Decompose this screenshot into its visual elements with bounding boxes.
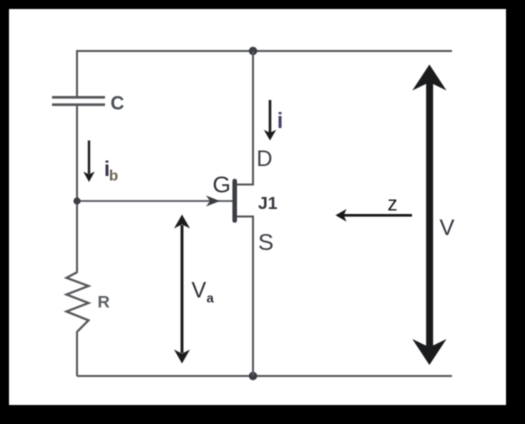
- svg-text:V: V: [440, 215, 455, 240]
- svg-text:V: V: [192, 278, 207, 303]
- gate arrowhead: [206, 196, 220, 207]
- wire left lower (resistor to bottom rail): [76, 331, 78, 376]
- wire left upper (top rail to capacitor): [76, 50, 78, 97]
- current arrow i_b: [83, 141, 94, 183]
- svg-text:z: z: [388, 194, 398, 216]
- voltage arrow Va (double headed): [174, 215, 190, 364]
- svg-text:D: D: [257, 146, 273, 171]
- current arrow i: [264, 100, 276, 141]
- wire gate lead: [77, 200, 233, 202]
- wire source vertical: [236, 217, 253, 377]
- wire drain vertical: [236, 51, 253, 185]
- node junction left (gate/divider): [73, 197, 80, 204]
- transistor J1 channel bar: [232, 181, 237, 221]
- svg-text:a: a: [207, 291, 215, 306]
- node junction bottom (source rail): [249, 372, 257, 380]
- wire left middle (capacitor to resistor): [76, 105, 78, 272]
- impedance arrow z: [336, 209, 413, 222]
- svg-text:G: G: [213, 172, 231, 198]
- wire top rail: [77, 50, 452, 52]
- node junction top (drain rail): [249, 47, 257, 55]
- svg-text:S: S: [258, 229, 274, 255]
- voltage arrow V (double headed thick): [412, 65, 446, 366]
- wire bottom rail: [77, 375, 452, 377]
- resistor R zigzag: [67, 272, 89, 331]
- svg-text:C: C: [111, 94, 125, 115]
- capacitor C1 plates: [52, 97, 105, 104]
- svg-text:b: b: [109, 168, 118, 185]
- svg-text:i: i: [277, 108, 283, 133]
- svg-text:R: R: [98, 293, 110, 312]
- svg-text:J1: J1: [258, 193, 278, 213]
